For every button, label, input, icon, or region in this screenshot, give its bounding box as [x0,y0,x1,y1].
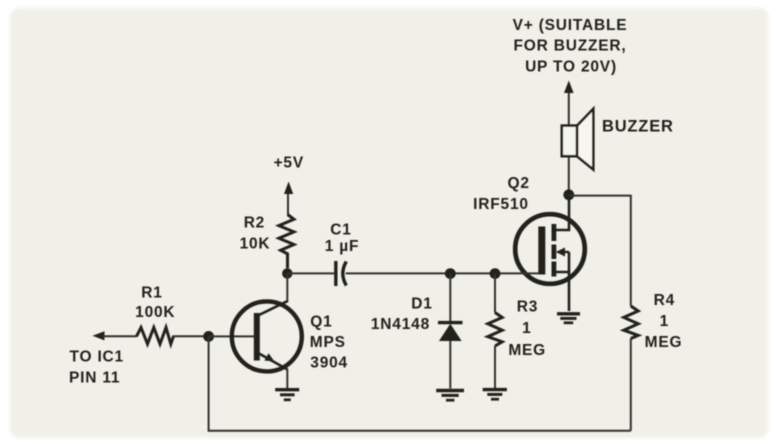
svg-text:R3: R3 [517,299,538,316]
label D1 1N4148 [371,296,433,334]
wire base junction to bottom rail [208,336,210,430]
node C1 junction [282,268,292,278]
wire C1 junction to capacitor [287,272,334,274]
input arrow TO IC1 [93,331,138,340]
wire drain junction to R4 branch [569,195,632,197]
svg-text:MEG: MEG [508,342,546,359]
node +5V label [274,155,304,172]
svg-text:V+ (SUITABLE: V+ (SUITABLE [513,17,628,34]
drain link [556,197,569,230]
label C1 1uF [325,222,360,256]
svg-text:Q1: Q1 [310,314,332,331]
transistor Q2 (IRF510 MOSFET) [515,197,585,311]
svg-text:R4: R4 [654,292,675,309]
label Q1 MPS 3904 [310,314,348,372]
node R3 junction [490,268,501,279]
ground below Q2 [557,314,580,323]
wire R1 to base junction [173,335,209,337]
svg-text:UP TO 20V): UP TO 20V) [525,59,617,76]
ground below D1 [436,391,464,401]
ground below Q1 [275,390,299,400]
source link [556,272,569,311]
label BUZZER [602,118,674,136]
svg-text:3904: 3904 [310,355,348,372]
capacitor C1 [336,261,347,286]
svg-text:D1: D1 [411,296,432,313]
diode D1 [438,274,463,389]
svg-text:Q2: Q2 [508,175,530,192]
gate bar [538,227,545,275]
buzzer BZ1 [562,109,594,192]
svg-text:1 µF: 1 µF [325,238,360,255]
svg-text:FOR BUZZER,: FOR BUZZER, [514,38,627,55]
label R3 1 MEG [508,299,546,359]
node D1 junction [445,268,456,279]
svg-text:R2: R2 [244,215,265,232]
wire emitter to ground [286,369,288,389]
wire R4 branch vertical [630,196,632,431]
wire bottom rail [208,430,631,432]
wire base lead [209,335,254,337]
svg-text:10K: 10K [240,236,271,253]
svg-text:R1: R1 [141,285,162,302]
svg-text:1: 1 [660,313,669,330]
label R2 10K [240,215,271,253]
svg-text:1N4148: 1N4148 [371,316,430,333]
label R1 100K [135,285,175,322]
resistor R4 [624,306,638,339]
body arrow [558,251,569,253]
svg-text:100K: 100K [135,304,175,321]
svg-text:TO IC1: TO IC1 [70,349,124,366]
node base junction [203,331,214,342]
transistor Q1 (MPS3904 NPN) [232,301,302,372]
svg-text:C1: C1 [330,222,351,239]
+5V supply arrow [284,182,293,216]
wire C1 to Q2 gate [346,272,539,274]
label R4 1 MEG [645,292,683,351]
resistor R3 [488,274,502,388]
V+ supply arrow [564,81,574,127]
ground below R3 [483,390,507,400]
svg-text:BUZZER: BUZZER [602,118,674,136]
wire collector to C1 junction [286,273,288,301]
label TO IC1 PIN 11 [69,349,124,387]
label Q2 IRF510 [473,175,530,213]
channel dashes [552,224,557,241]
resistor R2 [279,215,294,269]
svg-text:MEG: MEG [645,334,683,351]
svg-text:PIN 11: PIN 11 [69,370,120,387]
resistor R1 [137,328,174,345]
svg-text:IRF510: IRF510 [473,196,529,213]
node V+ label [513,17,628,76]
svg-text:MPS: MPS [310,334,346,351]
node drain junction [563,189,574,200]
svg-text:1: 1 [522,320,531,337]
svg-text:+5V: +5V [274,155,304,172]
